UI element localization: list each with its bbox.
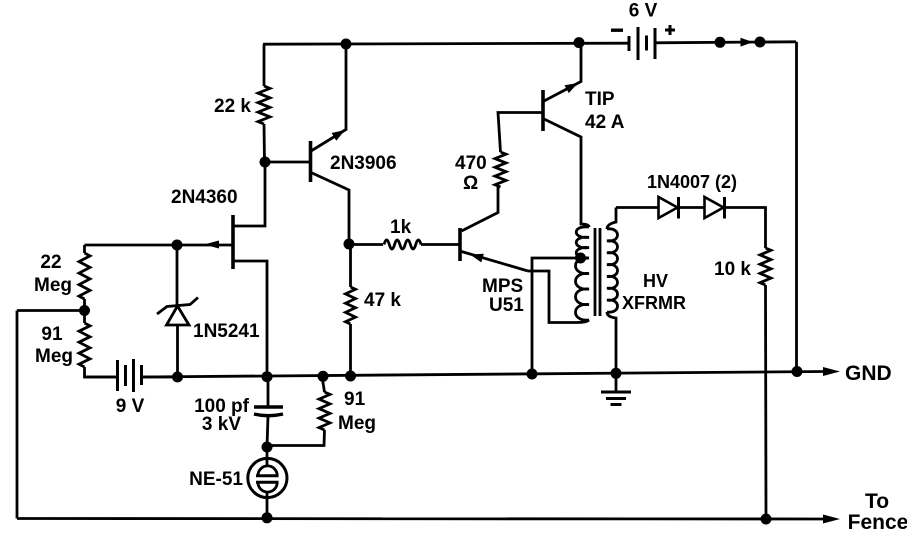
transformer T1 primary top lead [581, 222, 589, 227]
fence arrowhead [823, 515, 840, 524]
zener diode D3 1N5241 cathode bar with bent tips [157, 298, 198, 315]
junction dot 1k/47k/2N3906 collector [344, 239, 355, 250]
GND arrowhead [823, 367, 840, 376]
wire 9V battery to zener node [142, 376, 178, 379]
junction dot MPS emitter branch on rail [527, 369, 538, 380]
svg-text:10 k: 10 k [714, 259, 751, 280]
svg-text:91: 91 [41, 324, 63, 345]
transistor Q4 TIP 42A bar [541, 90, 545, 131]
svg-text:1k: 1k [390, 217, 412, 238]
svg-text:2N3906: 2N3906 [330, 153, 397, 174]
transistor Q2 2N4360 drain wire to 2N3906 base node [233, 162, 265, 226]
main rail from battery to GND arrow [142, 372, 825, 378]
junction dot right vertical on rail [792, 366, 803, 377]
transformer T1 secondary bottom lead [607, 312, 616, 373]
transistor Q1 2N3906 collector diagonal [311, 173, 349, 245]
svg-text:HV: HV [643, 271, 668, 291]
transformer T1 secondary winding [607, 229, 618, 312]
transistor Q3 MPS U51 bar [458, 228, 462, 261]
wire diodes to 10k corner [725, 208, 766, 249]
zener diode D3 1N5241 lead top [176, 245, 179, 306]
svg-text:47 k: 47 k [364, 290, 401, 311]
svg-text:Meg: Meg [35, 346, 73, 367]
svg-text:470: 470 [455, 153, 487, 174]
label minus sign of 6V battery [611, 29, 623, 32]
junction dot 47k bottom [345, 371, 356, 382]
resistor R4 91 Meg right zigzag [319, 377, 330, 431]
transistor Q4 TIP 42A collector diagonal down to transformer [544, 119, 581, 222]
resistor R8 10k zigzag [760, 248, 771, 285]
svg-text:91: 91 [344, 389, 366, 410]
neon lamp NE-51 top electrode bar [256, 474, 279, 477]
resistor R8 10k lead bottom to fence line [764, 285, 767, 519]
capacitor C1 plates [254, 407, 283, 416]
resistor R2 22 Meg zigzag [79, 253, 90, 299]
transistor Q3 MPS U51 collector diagonal up to 470 ohm [462, 187, 499, 231]
transformer T1 primary lower winding [576, 258, 590, 320]
svg-text:TIP: TIP [585, 89, 615, 110]
resistor R7 470 ohm zigzag [495, 152, 506, 187]
junction dot top rail right 2 [755, 37, 766, 48]
transformer T1 secondary top lead [607, 208, 616, 230]
junction dot 10k bottom on fence line [761, 514, 772, 525]
svg-text:Fence: Fence [848, 511, 907, 534]
wire tap to rail (crosses emitter wire) [532, 258, 581, 374]
transistor Q3 MPS U51 emitter arrowhead [470, 254, 484, 263]
wire right vertical from top rail to GND rail [795, 42, 798, 372]
transistor Q2 2N4360 gate wire [85, 244, 234, 247]
diode D1 1N4007 triangle [659, 197, 678, 218]
wire secondary top to diodes [616, 206, 658, 209]
svg-text:NE-51: NE-51 [189, 469, 243, 490]
zener diode D3 1N5241 lead bottom [176, 325, 179, 377]
resistor R2 22 Meg lead top corner [83, 245, 86, 253]
svg-text:22 k: 22 k [214, 96, 251, 117]
junction dot transformer primary tap [575, 253, 586, 264]
junction dot 91Meg right top [318, 371, 329, 382]
junction dot top rail at TIP42A emitter [574, 37, 585, 48]
svg-text:To: To [865, 490, 889, 513]
svg-text:22: 22 [40, 252, 61, 273]
transformer T1 core lines [595, 228, 600, 316]
capacitor C1 lead bottom [267, 416, 268, 447]
resistor R5 47k zigzag [346, 287, 356, 324]
wire top rail left segment [263, 43, 629, 44]
svg-text:XFRMR: XFRMR [622, 293, 686, 313]
transistor Q4 TIP 42A emitter diagonal to top rail [544, 43, 581, 101]
transistor Q3 MPS U51 emitter diagonal [462, 252, 529, 272]
zener diode D3 1N5241 triangle [167, 306, 190, 325]
svg-text:42 A: 42 A [585, 112, 625, 133]
resistor R1 22k vertical lead top [263, 44, 266, 86]
junction dot zener bottom [172, 372, 183, 383]
junction dot gate / zener [172, 240, 183, 251]
junction dot transformer secondary bottom on rail [611, 368, 622, 379]
junction dot left branch [79, 305, 90, 316]
junction dot top rail right 1 [715, 37, 726, 48]
svg-text:Meg: Meg [34, 275, 72, 296]
resistor R1 22k zigzag [258, 86, 270, 124]
wire left vertical down to fence line [16, 311, 19, 519]
transistor Q1 2N3906 base wire [265, 161, 309, 164]
transistor Q4 TIP 42A emitter arrowhead [565, 83, 579, 93]
wire left branch horizontal [17, 309, 85, 312]
neon lamp NE-51 top electrode dome [266, 447, 269, 466]
transformer T1 primary bottom lead [577, 320, 589, 323]
diode D1 1N4007 cathode bar [677, 197, 680, 219]
diode D2 1N4007 triangle [705, 197, 724, 218]
svg-text:1N5241: 1N5241 [193, 321, 260, 342]
junction dot NE-51 bottom on fence line [262, 512, 273, 523]
main rail (GND rail) left segment [85, 376, 118, 379]
neon lamp NE-51 outer circle [248, 458, 287, 497]
ground symbol below transformer [615, 373, 618, 392]
junction dot 22k / 2N3906 base [260, 157, 271, 168]
svg-text:U51: U51 [489, 295, 524, 316]
fence line [17, 517, 824, 520]
arrow on top rail pointing right [741, 38, 754, 47]
svg-text:2N4360: 2N4360 [171, 187, 238, 208]
resistor R5 47k lead bottom [349, 324, 352, 376]
transistor Q2 2N4360 gate arrowhead [204, 241, 219, 249]
transformer T1 primary upper winding [576, 227, 589, 258]
transistor Q2 2N4360 JFET channel bar [231, 215, 235, 269]
resistor R3 91 Meg zigzag [79, 311, 90, 368]
capacitor C1 100pf 3kV lead top [267, 377, 270, 406]
battery B2 6V plates [629, 27, 655, 60]
wire MPS emitter to transformer primary bottom [528, 271, 577, 323]
resistor R3 91 Meg lead bottom [85, 367, 118, 377]
resistor R2 22 Meg lead bottom [83, 299, 86, 310]
svg-text:6 V: 6 V [629, 1, 658, 22]
transistor Q2 2N4360 source wire down to rail [233, 261, 267, 377]
svg-text:Meg: Meg [338, 413, 376, 434]
label plus sign of 6V battery [665, 25, 675, 35]
transistor Q1 2N3906 emitter arrowhead [332, 130, 345, 141]
junction dot capacitor top / JFET source [262, 371, 273, 382]
svg-text:Ω: Ω [463, 173, 478, 194]
resistor R5 47k lead top [349, 244, 352, 287]
wire top rail right segment [655, 42, 796, 43]
svg-text:9 V: 9 V [116, 396, 145, 417]
wire between diodes [679, 206, 705, 209]
junction dot top rail at 2N3906 emitter [341, 39, 352, 50]
resistor R1 22k lead bottom [263, 124, 266, 162]
neon lamp NE-51 bottom electrode bar [256, 481, 279, 484]
resistor R6 1k zigzag [349, 243, 383, 246]
svg-text:MPS: MPS [482, 276, 523, 297]
resistor R7 470 ohm lead top to TIP base [498, 113, 543, 153]
resistor R4 91 Meg right lead bottom to cap node [267, 430, 325, 446]
transistor Q1 2N3906 bar [309, 141, 313, 182]
svg-text:3 kV: 3 kV [202, 414, 241, 435]
svg-text:GND: GND [845, 362, 892, 385]
neon lamp NE-51 bottom electrode dome [258, 483, 277, 493]
junction dot capacitor bottom / NE-51 top [262, 442, 273, 453]
transistor Q1 2N3906 emitter diagonal [311, 44, 346, 151]
battery B1 9V plates [118, 359, 142, 392]
svg-text:1N4007 (2): 1N4007 (2) [647, 172, 737, 192]
diode D2 1N4007 cathode bar [723, 197, 726, 219]
